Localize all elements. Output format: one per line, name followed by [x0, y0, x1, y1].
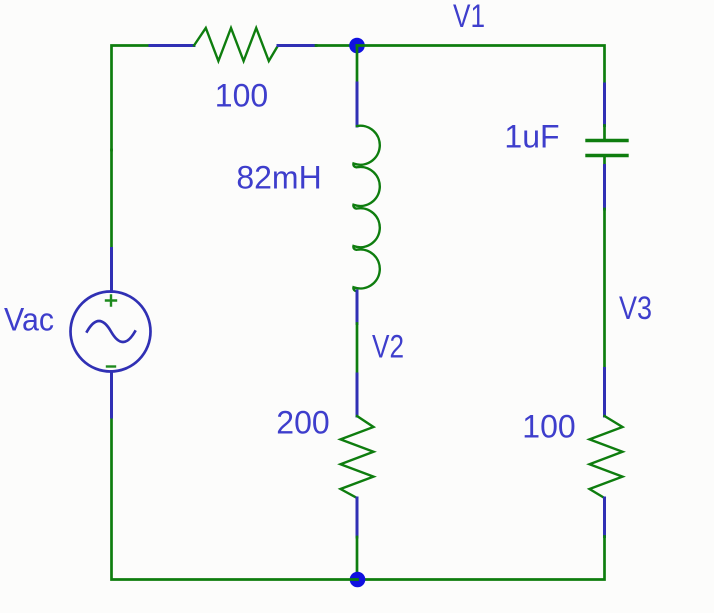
inductor L1 lead top (pin 1)	[356, 83, 359, 126]
resistor R2 lead bottom (pin 2)	[356, 498, 359, 537]
wire left vertical above source	[110, 150, 113, 249]
source minus mark	[107, 365, 115, 367]
svg-text:100: 100	[215, 78, 268, 114]
svg-text:Vac: Vac	[4, 302, 54, 338]
inductor L1 body	[353, 126, 379, 291]
svg-text:82mH: 82mH	[236, 160, 321, 196]
resistor R2 body	[341, 416, 374, 498]
wire right vertical (net V3)	[603, 209, 606, 369]
wire bottom horizontal left	[112, 417, 358, 580]
resistor R1 lead left (pin 1)	[150, 44, 194, 47]
source V lead bottom (pin -)	[110, 372, 113, 418]
source name label Vac	[4, 302, 54, 338]
source plus mark	[106, 296, 116, 306]
source V body (AC source)	[71, 292, 151, 372]
capacitor C1 lead bottom (pin 2)	[603, 166, 606, 210]
wire from node V1 down to inductor	[356, 46, 359, 84]
resistor R1 body	[194, 28, 278, 61]
junction node V1 (top)	[349, 38, 365, 54]
svg-text:V3: V3	[619, 290, 652, 326]
inductor L1 lead bottom (pin 2)	[356, 291, 359, 324]
wire top right horizontal	[357, 46, 605, 85]
value label 100 (R1)	[215, 78, 268, 114]
resistor R3 body	[590, 416, 623, 498]
source V lead top (pin +)	[110, 249, 113, 292]
capacitor C1 lead top (pin 1)	[603, 84, 606, 126]
capacitor C1 body	[587, 126, 627, 166]
wire from R2 to bottom node	[356, 537, 359, 580]
wire top middle to node V1	[316, 44, 357, 47]
resistor R1 lead right (pin 2)	[278, 44, 316, 47]
resistor R3 lead top (pin 1)	[603, 369, 606, 417]
wire bottom-right corner	[358, 537, 605, 580]
net label V3	[619, 290, 652, 326]
value label 100 (R3)	[522, 409, 575, 445]
svg-text:100: 100	[522, 409, 575, 445]
junction node bottom	[350, 572, 366, 588]
resistor R3 lead bottom (pin 2)	[603, 498, 606, 537]
net label V2	[372, 329, 404, 365]
net label V1	[453, 0, 485, 34]
value label 1uF (C1)	[504, 119, 559, 155]
wire middle vertical (net V2)	[356, 324, 359, 375]
svg-text:V2: V2	[372, 329, 404, 365]
svg-text:V1: V1	[453, 0, 485, 34]
value label 82mH (L1)	[236, 160, 321, 196]
svg-text:200: 200	[276, 405, 329, 441]
value label 200 (R2)	[276, 405, 329, 441]
resistor R2 lead top (pin 1)	[356, 374, 359, 416]
svg-text:1uF: 1uF	[504, 119, 559, 155]
wire top-left horizontal	[112, 46, 151, 151]
